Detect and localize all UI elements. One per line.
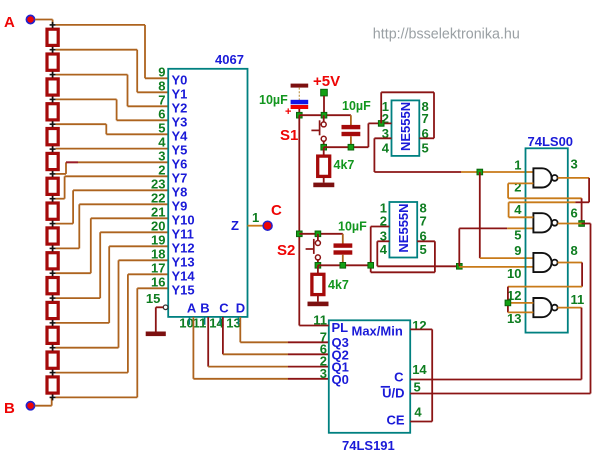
svg-text:7: 7: [420, 214, 427, 229]
svg-text:Z: Z: [231, 218, 239, 233]
node junction tap 4: [50, 121, 56, 127]
svg-text:4: 4: [382, 141, 390, 156]
svg-text:10µF: 10µF: [338, 220, 367, 234]
svg-text:4067: 4067: [215, 52, 244, 67]
svg-text:A: A: [4, 14, 15, 31]
pin name labels U5 right: [381, 370, 405, 428]
svg-text:A: A: [187, 301, 197, 316]
resistor R17 4k7: [318, 147, 330, 182]
svg-text:21: 21: [151, 204, 165, 219]
wire branch to gate3 pin9: [480, 172, 534, 258]
wire rail S1 bottom: [324, 146, 369, 148]
svg-text:22: 22: [151, 190, 165, 205]
gate U4a: [533, 168, 557, 187]
pin label Y4 pin 5: [158, 120, 188, 143]
svg-text:6: 6: [571, 206, 578, 221]
pin numbers U3 right 8 7 6 5: [420, 201, 427, 258]
node junction U3 out branch: [457, 264, 463, 270]
pin label Y8 pin 23: [151, 176, 187, 199]
wire U4b output stub: [558, 223, 582, 225]
svg-text:Y15: Y15: [172, 282, 195, 297]
wire branch to gate2 pin5: [459, 228, 533, 266]
pin label Y10 pin 21: [151, 204, 195, 227]
wire tap Y14: [56, 274, 169, 372]
svg-text:Y8: Y8: [172, 184, 188, 199]
svg-text:Y13: Y13: [172, 254, 195, 269]
node junction rail/S2: [297, 231, 303, 237]
svg-text:5: 5: [514, 228, 521, 243]
wire tap Y15: [56, 288, 169, 397]
svg-text:2: 2: [158, 162, 165, 177]
node junction tap 13: [50, 345, 56, 351]
wire tap Y5: [56, 148, 169, 150]
pin name labels U5 left: [332, 320, 403, 387]
wire branch to gate3 pin10: [459, 266, 533, 268]
wire U4d output11 to counter C: [557, 308, 581, 380]
wire U4a output3 to U4b pin4: [509, 178, 589, 217]
svg-text:Q0: Q0: [332, 372, 349, 387]
pin numbers U3 left 1 2 3 4: [380, 201, 388, 258]
wire tap Y11: [56, 232, 169, 298]
resistor R3 (ladder): [47, 75, 58, 100]
svg-text:10µF: 10µF: [342, 99, 371, 113]
wire U/D input pin5: [410, 393, 590, 395]
node junction tap 5: [50, 146, 56, 152]
svg-text:4: 4: [380, 242, 388, 257]
pin label Y15 pin 16: [151, 274, 195, 297]
gate U4b: [533, 213, 557, 232]
switch S2 pushbutton: [306, 234, 321, 265]
svg-text:12: 12: [412, 318, 426, 333]
svg-text:C: C: [219, 301, 229, 316]
ground bar (R17): [313, 183, 334, 188]
resistor R4 (ladder): [47, 99, 58, 124]
pin numbers U2 left 1 2 3 4: [382, 99, 390, 156]
svg-text:4k7: 4k7: [334, 158, 355, 172]
pin label Y11 pin 20: [151, 218, 194, 241]
wire U4c output8 to U4d pins 12 13: [508, 263, 582, 313]
node junction tap 9: [50, 245, 56, 251]
capacitor C2 10uF: [342, 115, 361, 147]
wire tap Y4: [56, 124, 169, 134]
svg-text:C: C: [271, 202, 282, 219]
wire U3 pin3 output: [377, 241, 459, 266]
wire U3 pin2 stub: [371, 227, 390, 273]
wire tap Y12: [56, 246, 169, 323]
svg-text:3: 3: [158, 148, 165, 163]
svg-text:20: 20: [151, 218, 165, 233]
svg-text:4: 4: [514, 202, 522, 217]
power +5V: [313, 73, 340, 115]
node junction tap 3: [50, 96, 56, 102]
node junction S1 bottom: [321, 144, 327, 150]
pin label Y6 pin 3: [158, 148, 187, 171]
svg-text:5: 5: [158, 120, 165, 135]
wire U2 pin2 to rail: [368, 123, 391, 147]
node junction tap 8: [50, 221, 56, 227]
resistor R11 (ladder): [47, 273, 58, 298]
pin label Y7 pin 2: [158, 162, 187, 185]
wire mux pin C to counter: [223, 317, 329, 354]
wire U4a pin2 from gate U4b output net: [508, 183, 581, 223]
wire tap Y1: [56, 50, 169, 93]
node junction C1/rail: [297, 112, 303, 118]
svg-text:C: C: [394, 370, 404, 385]
svg-text:4: 4: [158, 134, 166, 149]
svg-text:5: 5: [422, 141, 429, 156]
svg-text:Max/Min: Max/Min: [352, 324, 403, 339]
node A terminal: [4, 14, 35, 31]
counter U5 74LS191: [329, 320, 410, 453]
svg-text:D: D: [236, 301, 245, 316]
pin labels U4b 4 5 6: [514, 202, 577, 243]
resistor R14 (ladder): [47, 348, 58, 373]
multiplexer U1 4067: [168, 52, 247, 317]
pin label Y2 pin 7: [158, 92, 187, 115]
pin label Y12 pin 19: [151, 232, 195, 255]
svg-text:8: 8: [158, 78, 165, 93]
svg-text:+5V: +5V: [313, 73, 340, 90]
wire tap Y13: [56, 260, 169, 347]
svg-text:10: 10: [507, 266, 521, 281]
svg-text:Y5: Y5: [172, 142, 188, 157]
wire +5V rail top: [299, 114, 351, 116]
svg-text:Y10: Y10: [172, 212, 195, 227]
node junction U4b output: [579, 221, 585, 227]
svg-text:2: 2: [514, 180, 521, 195]
pin Z output pin 1: [231, 210, 263, 233]
wire tap Y2: [56, 75, 169, 107]
svg-text:74LS191: 74LS191: [342, 438, 395, 453]
svg-text:3: 3: [571, 157, 578, 172]
svg-text:9: 9: [514, 243, 521, 258]
wire rail S2 bottom: [318, 264, 371, 266]
node junction U2 out branch: [477, 169, 483, 175]
pin label Y9 pin 22: [151, 190, 187, 213]
svg-text:74LS00: 74LS00: [528, 134, 574, 149]
svg-text:3: 3: [320, 366, 327, 381]
svg-text:Y4: Y4: [172, 128, 189, 143]
node junction tap 1: [50, 47, 56, 53]
svg-text:9: 9: [158, 64, 165, 79]
node junction S2 top: [315, 231, 321, 237]
resistor R10 (ladder): [47, 248, 58, 273]
node junction tap 15: [50, 394, 56, 400]
node junction tap 2: [50, 72, 56, 78]
node junction tap 14: [50, 370, 56, 376]
wire tap Y7: [56, 176, 169, 198]
pin labels U4c 9 10 8: [507, 243, 578, 281]
node junction +5V/rail: [321, 112, 327, 118]
ground bar (C1): [291, 84, 309, 88]
switch S1 pushbutton: [311, 115, 326, 147]
wire PL input: [299, 325, 329, 327]
ground bar (R18): [308, 302, 329, 307]
node junction tap 6: [50, 171, 56, 177]
node junction tap 11: [50, 295, 56, 301]
wire tap Y6: [56, 162, 169, 174]
wire rail S2 top: [299, 233, 343, 235]
wire mux pin B to counter: [208, 317, 329, 367]
pin labels U4d 12 13 11: [507, 288, 584, 326]
pin label Y5 pin 4: [158, 134, 187, 157]
wire mux pin A to counter: [193, 317, 328, 379]
quad NAND U4 74LS00: [526, 134, 574, 333]
svg-text:Y7: Y7: [172, 170, 188, 185]
resistor R6 (ladder): [47, 149, 58, 174]
svg-text:14: 14: [412, 362, 427, 377]
svg-text:Y1: Y1: [172, 86, 188, 101]
svg-text:16: 16: [151, 274, 165, 289]
wire tap Y9: [56, 204, 169, 248]
svg-text:7: 7: [158, 92, 165, 107]
svg-text:18: 18: [151, 246, 165, 261]
svg-text:Y3: Y3: [172, 114, 188, 129]
wire tap Y10: [56, 218, 169, 273]
pin label Y13 pin 18: [151, 246, 195, 269]
svg-text:15: 15: [146, 291, 160, 306]
svg-text:7: 7: [422, 111, 429, 126]
wire pin12 Max/Min to CE loop: [410, 329, 432, 421]
wire tap Y8: [56, 190, 169, 223]
svg-text:5: 5: [414, 379, 421, 394]
node junction C3 bottom: [340, 263, 346, 269]
svg-text:4k7: 4k7: [328, 278, 349, 292]
bottom pin numbers 10 11 14 13: [179, 316, 240, 331]
gate U4d: [533, 298, 557, 317]
svg-text:Y2: Y2: [172, 100, 188, 115]
node C terminal: [263, 202, 282, 230]
pin label Y0 pin 9: [158, 64, 187, 87]
wire U2 pin2-pin6 top loop: [381, 92, 434, 138]
node junction tap 0: [50, 22, 56, 28]
svg-text:Y6: Y6: [172, 156, 188, 171]
gate U4c: [533, 253, 557, 272]
pin label Y14 pin 17: [151, 260, 195, 283]
svg-text:19: 19: [151, 232, 165, 247]
node junction tap 7: [50, 196, 56, 202]
pin label Y1 pin 8: [158, 78, 187, 101]
node junction C2 bottom: [348, 144, 354, 150]
svg-text:NE555N: NE555N: [398, 102, 413, 151]
wire A to ladder: [35, 20, 53, 25]
resistor R15 (ladder): [47, 373, 58, 398]
timer U3 NE555N: [389, 202, 417, 258]
svg-text:17: 17: [151, 260, 165, 275]
svg-text:U/D: U/D: [382, 386, 404, 401]
svg-text:6: 6: [158, 106, 165, 121]
resistor R7 (ladder): [47, 174, 58, 199]
svg-text:Y0: Y0: [172, 72, 188, 87]
wire C clock input pin14: [410, 379, 581, 381]
resistor R12 (ladder): [47, 298, 58, 323]
wire vertical rail to S2 and PL: [298, 115, 300, 325]
timer U2 NE555N: [392, 100, 420, 155]
node B terminal: [4, 400, 35, 417]
svg-text:8: 8: [571, 243, 578, 258]
resistor R13 (ladder): [47, 323, 58, 348]
svg-text:S2: S2: [277, 242, 295, 259]
node junction U4d pin12: [505, 300, 511, 306]
wire U2 pin3 output: [374, 138, 533, 172]
wire mux pin D to counter: [240, 317, 328, 342]
resistor R2 (ladder): [47, 50, 58, 75]
svg-text:NE555N: NE555N: [396, 203, 411, 252]
pin numbers U2 right 8 7 6 5: [422, 99, 429, 156]
svg-text:Y14: Y14: [172, 268, 196, 283]
svg-text:B: B: [4, 400, 15, 417]
wire B to ladder: [35, 397, 52, 405]
svg-text:5: 5: [420, 242, 427, 257]
ground bar (pin 15): [146, 332, 166, 337]
svg-text:+: +: [285, 106, 291, 118]
svg-text:1: 1: [514, 158, 521, 173]
svg-text:S1: S1: [280, 127, 298, 144]
pin 15 inhibit with bubble: [146, 291, 168, 332]
svg-text:4: 4: [414, 405, 422, 420]
node junction tap 12: [50, 320, 56, 326]
node junction U2 pin2: [378, 121, 384, 127]
svg-text:1: 1: [252, 210, 259, 225]
wire tap Y3: [56, 99, 169, 120]
svg-text:11: 11: [571, 292, 585, 307]
resistor R8 (ladder): [47, 199, 58, 224]
capacitor C1 10uF electrolytic: [285, 88, 308, 118]
node junction U3 pin2/rail: [368, 263, 374, 269]
svg-text:Y12: Y12: [172, 240, 195, 255]
svg-text:PL: PL: [332, 320, 349, 335]
pin numbers U5 left 11 7 6 2 3: [313, 313, 327, 381]
resistor R1 (ladder): [47, 25, 58, 50]
node junction S2 bottom: [315, 263, 321, 269]
svg-text:Y11: Y11: [172, 226, 194, 241]
svg-text:Y9: Y9: [172, 198, 188, 213]
svg-text:10µF: 10µF: [259, 93, 288, 107]
resistor R5 (ladder): [47, 124, 58, 149]
svg-text:10: 10: [179, 316, 193, 331]
svg-text:CE: CE: [386, 413, 404, 428]
pin labels U4a 1 2 3: [514, 157, 577, 195]
node junction tap 10: [50, 270, 56, 276]
svg-text:B: B: [200, 301, 209, 316]
bottom pin labels A B C D: [187, 301, 245, 316]
wire tap Y0: [56, 25, 169, 78]
resistor R9 (ladder): [47, 224, 58, 249]
pin numbers U5 right 12 14 5 4: [412, 318, 427, 420]
svg-text:23: 23: [151, 176, 165, 191]
pin label Y3 pin 6: [158, 106, 187, 129]
capacitor C3 10uF: [334, 234, 353, 265]
resistor R18 4k7: [312, 265, 324, 301]
svg-text:http://bsselektronika.hu: http://bsselektronika.hu: [373, 27, 520, 43]
wire U3 pin2-pin6 bottom loop: [371, 241, 435, 272]
wire U4b net to U/D: [582, 224, 591, 394]
